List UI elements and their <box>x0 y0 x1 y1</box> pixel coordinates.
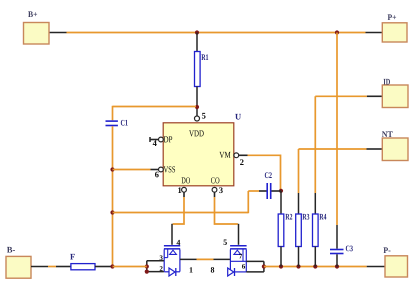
node junction R1/C1/VDD <box>195 105 199 109</box>
pin 5 VDD circle <box>195 113 206 121</box>
wire VM (orange) <box>248 155 281 191</box>
wire R2 top (black) <box>280 191 282 214</box>
wire Q2 gate connector vertical <box>263 261 265 272</box>
pad B- <box>6 247 31 278</box>
capacitor C1 <box>106 120 128 126</box>
wire Q1 gate connector vertical <box>146 261 148 272</box>
wire C1 bottom vertical <box>112 126 114 267</box>
wire R3 top (orange) <box>298 149 300 193</box>
node junction R3 bottom <box>296 264 300 268</box>
wire VSS horizontal (orange) <box>113 169 151 171</box>
wire C2 left horizontal <box>248 190 259 192</box>
wire fuse to junction black <box>95 266 111 268</box>
wire B- rail to Q1 gates (orange) <box>113 266 147 268</box>
pin 1 DO <box>178 177 190 197</box>
wire B- black <box>31 266 48 268</box>
pad B+ <box>24 11 50 44</box>
wire CO down (orange) <box>215 197 238 224</box>
node junction Q2 gates <box>262 264 266 268</box>
wire R1 top <box>196 33 198 53</box>
resistor R2 <box>278 214 292 247</box>
pin 3 CO <box>211 177 223 197</box>
resistor R4 <box>313 214 327 247</box>
wire C2 right stub (black) <box>272 190 282 192</box>
wire R2 bottom (black) <box>280 247 282 267</box>
wire Q2 gate stub pin 7 <box>246 260 264 262</box>
wire source link orange middle <box>197 258 214 260</box>
wire R3 bottom (black) <box>298 247 300 267</box>
wire R4 bottom (black) <box>314 247 316 267</box>
pin 6 VSS circle <box>155 166 175 177</box>
fuse F <box>70 254 95 270</box>
wire DO down (orange) <box>173 197 184 224</box>
wire source link black left <box>180 258 197 260</box>
wire R4 top (orange) <box>314 96 316 193</box>
wire DO to Q1 drain (black) <box>171 224 173 245</box>
wire C3 top (orange) <box>336 33 338 226</box>
wire B- orange segment <box>48 266 56 268</box>
pad P- <box>383 247 407 277</box>
wire CO to Q2 drain (black) <box>238 224 240 245</box>
node junction C1/C2 net <box>110 210 114 214</box>
wire C2 left vertical <box>247 191 249 213</box>
label VDD <box>189 130 204 136</box>
node junction B-/C1 <box>110 264 114 268</box>
wire C1 top vertical <box>112 106 114 121</box>
wire C3 top stub (black) <box>336 225 338 249</box>
node junction Q1 gates lower <box>145 270 149 274</box>
label pin 1 of Q1 <box>190 267 193 272</box>
op-amp U (protection IC) body <box>163 114 241 186</box>
resistor R3 <box>296 214 310 247</box>
pad NT <box>382 131 408 160</box>
wire P- pad stub (black) <box>367 266 385 268</box>
node junction B+/C3 <box>335 30 339 34</box>
capacitor C3 <box>330 246 353 255</box>
resistor R1 <box>195 52 209 87</box>
wire ID horizontal (orange) <box>315 95 367 97</box>
wire B+ pad stub (black) <box>49 32 67 34</box>
wire C3 bottom (black) <box>336 254 338 266</box>
wire P+ pad stub (black) <box>366 32 383 34</box>
wire Q2 gate stub pin 6 <box>246 271 264 273</box>
capacitor C2 <box>265 172 272 199</box>
wire C1 to VDD node horizontal <box>113 106 197 108</box>
wire B- to fuse black <box>56 266 71 268</box>
wire C2 left stub (black) <box>259 190 267 192</box>
wire B+ to P+ rail (orange) <box>67 32 366 34</box>
wire Q1 gate stub pin 2 <box>147 271 164 273</box>
wire NT horizontal (orange) <box>299 148 367 150</box>
pin 2 VM <box>219 152 247 165</box>
wire VSS pin 6 stub (black) <box>151 169 159 171</box>
pad ID <box>382 79 408 108</box>
wire R4 top stub (black) <box>314 193 316 214</box>
node junction R2 bottom <box>279 264 283 268</box>
pad P+ <box>382 14 407 42</box>
label pin 8 of Q2 <box>211 267 214 272</box>
node junction Q1 gates upper <box>145 264 149 268</box>
node junction VM/C2/R2 <box>279 189 283 193</box>
transistor Q2 (right mosfet) <box>224 240 247 276</box>
wire Q1 gate stub pin 3 <box>147 260 164 262</box>
node junction B+/R1 <box>195 30 199 34</box>
wire NT pad stub (black) <box>367 148 383 150</box>
wire ID pad stub (black) <box>367 95 382 97</box>
node junction C3 bottom <box>335 264 339 268</box>
transistor Q1 (left mosfet) <box>160 240 181 276</box>
wire VSS net to C2 long horizontal <box>113 212 249 214</box>
node junction R4 bottom <box>313 264 317 268</box>
wire source link black right <box>214 258 231 260</box>
wire P- rail (orange) <box>264 266 367 268</box>
wire R3 top stub (black) <box>298 193 300 214</box>
node junction C1/VSS <box>110 167 114 171</box>
pin 4 DP with no-connect tick <box>150 136 172 146</box>
wire R1 bottom <box>196 87 198 117</box>
